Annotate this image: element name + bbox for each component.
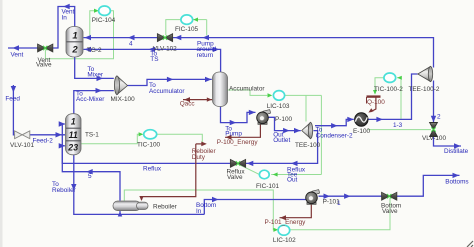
svg-text:23: 23 [67, 143, 78, 153]
wire TEE-100 second outlet down to Reflux line [246, 131, 318, 164]
valve Reflux Valve [230, 160, 238, 168]
svg-text:FIC-101: FIC-101 [256, 183, 280, 190]
controller LIC-103 [273, 91, 284, 101]
svg-text:P-101_Energy: P-101_Energy [265, 219, 307, 226]
wire Vent outlet [8, 47, 38, 49]
svg-text:Valve: Valve [382, 208, 398, 215]
controller TIC-100 [144, 130, 157, 139]
svg-text:TS: TS [150, 56, 158, 63]
wire reboiler bottom stub [119, 211, 121, 215]
svg-text:Vent: Vent [11, 52, 24, 59]
control signal TIC-100 PV from TS-1 [81, 134, 142, 144]
svg-text:LIC-102: LIC-102 [273, 237, 296, 244]
wire To TS line / accumulator feed [84, 49, 221, 73]
svg-text:Qacc: Qacc [180, 101, 196, 108]
valve VLV-102 [157, 34, 165, 42]
svg-text:VLV-102: VLV-102 [153, 45, 177, 52]
svg-text:2: 2 [437, 113, 441, 120]
svg-text:Condenser-2: Condenser-2 [316, 133, 353, 140]
energy stream Qacc [183, 99, 212, 101]
wire TS-1 bottoms To Reboiler [74, 153, 205, 214]
svg-text:Reboiler: Reboiler [52, 187, 77, 194]
wire P-101 outlet stream 1 to Bottom Valve [319, 195, 382, 197]
svg-text:TEE-100: TEE-100 [295, 142, 321, 149]
svg-text:LIC-103: LIC-103 [267, 103, 290, 110]
svg-text:P-100: P-100 [275, 116, 292, 123]
vessel Reboiler [113, 201, 141, 211]
wire pump around return / stream 4 into TG-2 [84, 37, 158, 39]
wire TEE-100-2 down through stream 2 / VLV-100 to Distillate [433, 81, 435, 124]
wire Reflux line into TS-1 [62, 124, 230, 163]
svg-text:1-3: 1-3 [393, 122, 403, 129]
controller FIC-105 [181, 15, 193, 24]
svg-text:Valve: Valve [36, 62, 52, 69]
svg-text:P-101: P-101 [323, 198, 340, 205]
svg-text:Duty: Duty [192, 154, 206, 161]
resize grip bottom-right [467, 241, 473, 247]
svg-text:Feed: Feed [5, 96, 20, 103]
svg-text:4: 4 [129, 40, 133, 47]
wire Accumulator bottoms To Pump [221, 106, 256, 123]
svg-text:Reboiler: Reboiler [153, 203, 178, 210]
svg-text:Bottoms: Bottoms [445, 178, 468, 185]
wire Feed into VLV-101 [13, 85, 14, 135]
valve VLV-101 [15, 131, 23, 139]
controller TIC-100-2 [384, 73, 396, 82]
control signal branch to TEE-100 [305, 95, 307, 121]
energy stream P-100_Energy [225, 124, 260, 138]
svg-text:P-100_Energy: P-100_Energy [217, 139, 259, 146]
wire TG-2 bottoms To Mixer [75, 57, 114, 79]
svg-text:Accumulator: Accumulator [229, 86, 265, 93]
svg-text:TEE-100-2: TEE-100-2 [409, 86, 440, 93]
control signal LIC-103 PV from Accumulator [228, 90, 268, 95]
svg-text:Q-100: Q-100 [367, 99, 385, 106]
svg-text:VLV-101: VLV-101 [10, 142, 34, 149]
control signal TIC-100-2 PV from stream 1-3 [397, 78, 401, 119]
svg-text:Feed-2: Feed-2 [33, 137, 54, 144]
tee TEE-100 [302, 123, 311, 139]
svg-text:1: 1 [71, 117, 76, 127]
svg-text:TS-1: TS-1 [85, 132, 99, 139]
energy stream Reboiler Duty [196, 143, 206, 145]
svg-text:In: In [196, 208, 202, 215]
svg-text:return: return [197, 52, 214, 59]
vessel TG-2 column [66, 27, 83, 58]
wire Bottom In to P-101 [204, 200, 306, 215]
svg-text:Mixer: Mixer [87, 71, 103, 78]
wire P-100 outlet Out/Outlet to TEE-100 [269, 117, 301, 130]
svg-text:PIC-104: PIC-104 [92, 17, 116, 24]
control signal LIC-102 PV from Reboiler [124, 190, 277, 230]
control signal FIC-101 SP/PV line [271, 174, 321, 176]
control signal PIC-104 OP to Vent Valve [45, 11, 113, 59]
pump P-101 [307, 202, 316, 204]
svg-text:Valve: Valve [227, 174, 243, 181]
wire Vent In loop: TG-2 top to Vent Valve [53, 7, 75, 49]
heat exchanger E-100 [355, 113, 368, 126]
wire Bottoms product [397, 175, 460, 196]
svg-text:Outlet: Outlet [273, 137, 290, 144]
valve Vent Valve [38, 44, 46, 52]
wire boilup stream 5 into TS-1 [62, 146, 120, 201]
controller FIC-101 [259, 170, 269, 179]
control signal TIC-100 OP to Reboiler Duty [157, 134, 203, 142]
svg-text:2: 2 [71, 44, 78, 55]
wire TEE-100 To Condenser-2 into E-100 [315, 119, 354, 125]
control signal TIC-100-2 OP to Q-100 [375, 78, 384, 93]
valve Bottom Valve [382, 192, 390, 200]
svg-text:Reflux: Reflux [143, 166, 162, 173]
tee TEE-100-2 [418, 67, 431, 82]
svg-text:MIX-100: MIX-100 [111, 96, 136, 103]
control signal PIC-104 PV tap [90, 11, 98, 36]
svg-text:11: 11 [69, 130, 78, 140]
control signal FIC-101 OP to Reflux Valve [239, 164, 259, 174]
svg-text:E-100: E-100 [353, 128, 370, 135]
energy stream P-101_Energy [280, 205, 312, 218]
svg-text:Acc-Mixer: Acc-Mixer [76, 96, 105, 103]
controller PIC-104 [99, 6, 111, 15]
svg-text:Pump: Pump [225, 131, 242, 138]
wire Feed-2 into TS-1 [30, 134, 65, 136]
control signal FIC-105 PV tap [206, 20, 208, 36]
control signal cascade to FIC-101 [320, 95, 322, 174]
vessel Accumulator drum [213, 72, 228, 107]
wire MIX-100 outlet To Accumulator [128, 79, 212, 85]
svg-text:Accumulator: Accumulator [149, 88, 185, 95]
control signal FIC-105 OP to VLV-102 [166, 20, 181, 36]
vessel TS-1 column [66, 114, 82, 155]
control signal LIC-103 OP [285, 94, 322, 96]
svg-text:5: 5 [88, 173, 92, 180]
wire TS-1 overhead To Acc-Mixer [74, 91, 114, 116]
wire E-100 outlet 1-3 to TEE-100-2 [368, 74, 417, 119]
mixer MIX-100 [117, 76, 128, 95]
svg-text:In: In [62, 15, 68, 22]
controller LIC-102 [278, 225, 290, 235]
svg-text:Out: Out [287, 177, 298, 184]
control signal E-100 to VLV-100 [368, 129, 431, 131]
svg-text:FIC-105: FIC-105 [175, 26, 199, 33]
energy stream Q-100 [367, 95, 381, 97]
valve VLV-100 [430, 123, 438, 130]
control signal LIC-102 OP to Bottom Valve [290, 198, 390, 230]
svg-text:1: 1 [72, 30, 77, 41]
pump P-100 [258, 122, 267, 124]
svg-text:TG-2: TG-2 [87, 47, 102, 54]
window chrome left edge [0, 0, 3, 247]
svg-text:VLV-100: VLV-100 [422, 135, 446, 142]
svg-text:Distillate: Distillate [444, 148, 469, 155]
svg-text:TIC-100: TIC-100 [137, 142, 161, 149]
svg-text:TIC-100-2: TIC-100-2 [374, 86, 403, 93]
